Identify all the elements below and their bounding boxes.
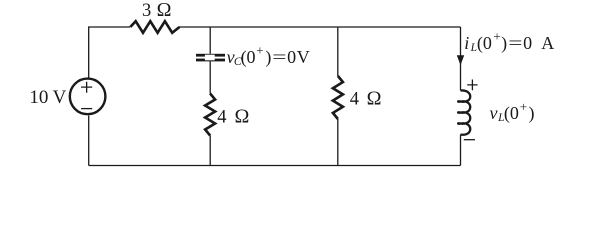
wire: left branch lower (source bottom to bottom rail) (88, 116, 90, 166)
svg-text:vL(0+): vL(0+) (490, 99, 535, 124)
wire: right branch upper (top rail corner down to inductor) (460, 27, 462, 91)
svg-text:iL(0+)=0A: iL(0+)=0A (464, 29, 554, 54)
svg-text:vC(0+)=0V: vC(0+)=0V (227, 43, 310, 68)
voltage source V1 plus sign (81, 82, 92, 93)
label: minus sign below inductor (464, 139, 475, 141)
wire: bottom rail (89, 165, 461, 167)
label: plus sign above inductor (467, 80, 477, 91)
resistor R3 (4 ohm, vertical middle branch) (333, 76, 343, 119)
wire: right branch lower (inductor to bottom rail) (460, 135, 462, 166)
wire: R3 bottom lead (337, 119, 339, 166)
wire: top rail from R1 to right corner (through nodes of C1 and R3 branches) (179, 26, 461, 28)
wire: R2 bottom lead (209, 136, 211, 166)
current arrow iL (pointing down) (457, 55, 464, 65)
svg-text:4Ω: 4Ω (217, 105, 249, 127)
resistor R1 (3 ohm, horizontal) (130, 21, 179, 33)
svg-text:4Ω: 4Ω (350, 87, 382, 109)
voltage source V1 (circle) (70, 79, 106, 115)
wire: capacitor to R2 lead (209, 61, 211, 93)
capacitor C1 (plates) (196, 54, 225, 62)
wire: capacitor branch top lead (209, 27, 211, 54)
wire: R3 branch top lead (337, 27, 339, 76)
svg-text:10V: 10V (29, 87, 66, 108)
resistor R2 (4 ohm, vertical under capacitor) (205, 94, 215, 136)
voltage source V1 minus sign (81, 108, 92, 110)
wire: top rail left segment (source top corner to R1) (89, 27, 130, 78)
svg-text:3Ω: 3Ω (142, 0, 172, 21)
inductor L1 (coil) (458, 90, 470, 134)
